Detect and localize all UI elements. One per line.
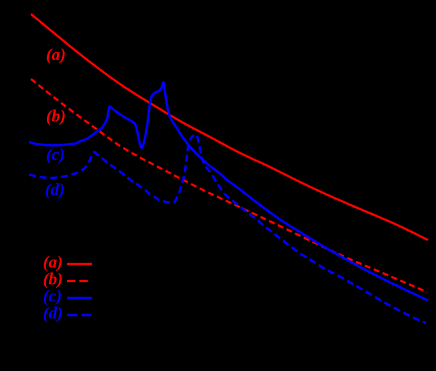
svg-text:(c): (c) [46,145,65,164]
legend entry (c) line [67,297,92,299]
curve (b) red dashed [31,79,427,292]
svg-text:(b): (b) [46,107,66,126]
svg-text:(d): (d) [45,180,65,199]
curve (d) blue dashed [29,134,426,323]
legend entry (d) line [67,314,92,316]
legend entry (a) line [67,263,92,265]
svg-text:(a): (a) [46,45,66,64]
curve (c) blue solid [29,82,428,300]
svg-text:(d): (d) [43,304,63,323]
legend entry (b) line [67,280,91,282]
curve (a) red solid [31,14,428,240]
